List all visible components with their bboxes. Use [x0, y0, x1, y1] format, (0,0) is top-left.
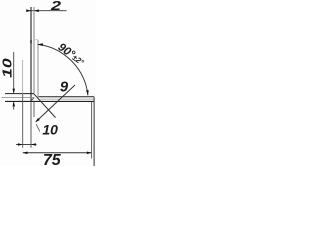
flange bottom line [5, 100, 94, 102]
svg-text:10: 10 [0, 57, 14, 78]
svg-text:10: 10 [42, 121, 58, 137]
short leader tail to text 10 [36, 124, 40, 131]
bottom dim 10: right-pointing arrowhead [18, 143, 23, 146]
diagonal A [34, 94, 56, 118]
diagonal B (leader of 9) [36, 85, 75, 122]
left dimension 10: upper dim line [13, 52, 15, 93]
left dim 10: lower tail [13, 102, 15, 110]
bottom dim 10: left-pointing arrowhead [31, 143, 36, 146]
flange top-left line [5, 93, 34, 95]
arc upper arrowhead [38, 43, 43, 46]
left dim 10: up arrowhead [13, 102, 16, 107]
flange top-right line [39, 96, 94, 98]
leg outer wall (left, x=31) with extension above [30, 7, 32, 102]
flange left gray mid line [2, 97, 35, 99]
svg-text:75: 75 [43, 152, 62, 166]
witness line x=22.7 lower part [22, 94, 24, 148]
corner chamfer [31, 98, 35, 102]
bottom dim 10: dim line [16, 144, 37, 146]
dim 75: dim line [23, 152, 92, 154]
svg-text:2: 2 [50, 0, 62, 13]
faint step at leg thickness change [34, 39, 38, 41]
flange right end cap / page border [93, 97, 95, 166]
leg inner wall lower (x=38) [37, 40, 39, 97]
dim 75: right arrowhead [87, 152, 92, 155]
dark tick on outer wall at step height [30, 40, 32, 44]
angle dimension arc 90 [38, 44, 88, 95]
dimension 2: left arrowhead [26, 9, 31, 12]
short vertical below flange x=34 [33, 102, 35, 117]
dimension 2: right arrowhead [34, 9, 39, 12]
witness line x=22.7 [22, 60, 24, 94]
left dim 10: down arrowhead [13, 89, 16, 94]
witness line x=31 [30, 102, 32, 148]
diagonal B arrowhead [35, 118, 40, 122]
arc lower arrowhead [86, 90, 89, 95]
dim 75: right witness line [91, 102, 93, 159]
dimension 2: dimension/shelf line [27, 10, 67, 12]
leg inner wall upper (x=34, thin) [33, 7, 35, 94]
flange mid gray line [40, 98, 94, 100]
svg-text:9: 9 [60, 79, 69, 95]
dim 75: left arrowhead [23, 152, 28, 155]
